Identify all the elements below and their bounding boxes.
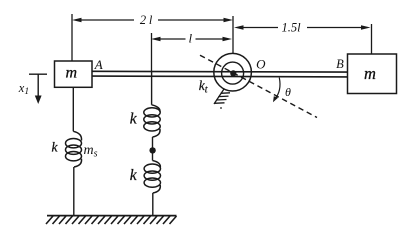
mass m (right block) bbox=[348, 54, 397, 94]
svg-text:ms: ms bbox=[84, 143, 98, 159]
spring k with ms (left), upper lead bbox=[72, 87, 74, 131]
pivot ground symbol bbox=[214, 89, 230, 104]
svg-text:θ: θ bbox=[285, 85, 291, 99]
svg-text:k: k bbox=[130, 110, 138, 127]
svg-text:m: m bbox=[364, 64, 376, 83]
svg-text:x1: x1 bbox=[18, 81, 29, 97]
pivot O: center dot bbox=[230, 70, 236, 76]
dimension l bbox=[151, 37, 232, 42]
wire: right dimension extension line bbox=[371, 24, 373, 54]
wire: middle dimension extension line bbox=[151, 33, 153, 71]
dimension 1.5l bbox=[234, 25, 371, 30]
spring k (left), lower lead bbox=[73, 167, 75, 216]
svg-text:O: O bbox=[256, 57, 266, 72]
dimension 2l bbox=[72, 18, 233, 23]
ground hatching bbox=[46, 216, 177, 224]
spring k (middle lower) coil bbox=[144, 161, 160, 194]
svg-text:l: l bbox=[188, 31, 192, 46]
svg-text:2: 2 bbox=[140, 13, 146, 27]
wire between springs bbox=[152, 137, 154, 148]
wire below node bbox=[152, 154, 154, 161]
pivot O: outer circle bbox=[214, 53, 252, 91]
angle theta arc with arrowhead bbox=[275, 78, 281, 100]
wire: pivot dimension extension line bbox=[232, 16, 234, 53]
svg-text:k: k bbox=[130, 167, 138, 184]
pivot O: inner circle bbox=[222, 62, 244, 84]
dashed line through pivot (rotated position) bbox=[200, 55, 317, 117]
spring k (left) coil bbox=[66, 131, 82, 167]
mass m (left block) bbox=[55, 61, 93, 87]
wire: left dimension extension line bbox=[71, 14, 73, 61]
displacement x1 arrow bbox=[29, 74, 47, 104]
spring k (middle upper) coil bbox=[144, 105, 160, 137]
svg-text:l: l bbox=[149, 13, 153, 27]
spring k (middle lower), lower lead bbox=[152, 193, 154, 216]
svg-text:B: B bbox=[336, 57, 344, 71]
ground line bbox=[47, 215, 177, 217]
beam (rigid bar, double line) bbox=[92, 70, 348, 73]
svg-text:k: k bbox=[52, 139, 59, 154]
svg-text:1.5l: 1.5l bbox=[281, 21, 301, 35]
svg-text:m: m bbox=[66, 65, 78, 82]
svg-text:A: A bbox=[94, 57, 103, 72]
spring k (middle upper), lead from beam bbox=[151, 71, 153, 105]
svg-text:kt: kt bbox=[199, 78, 208, 96]
junction node dot bbox=[149, 147, 155, 153]
